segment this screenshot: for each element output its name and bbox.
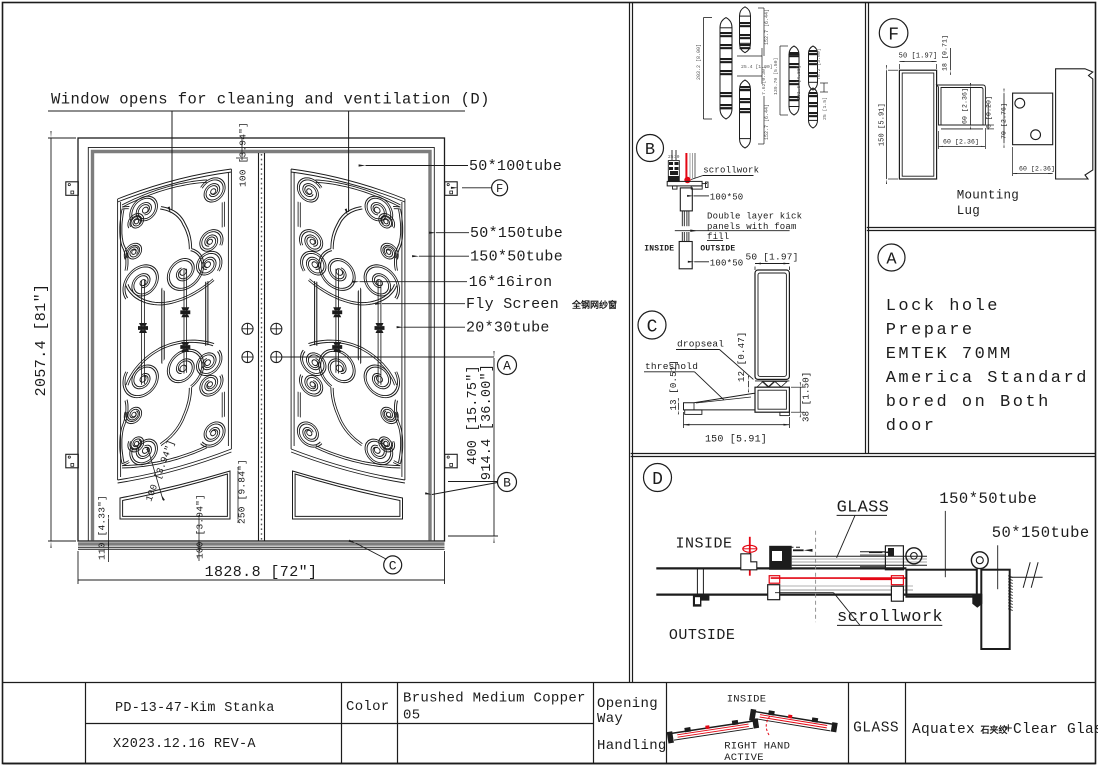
svg-text:Prepare: Prepare [886,321,975,340]
svg-text:Color: Color [346,699,390,715]
callout C bottom [384,556,402,574]
hinge hardware drawings [720,28,732,109]
svg-text:152.7 [6.44]: 152.7 [6.44] [764,104,770,140]
svg-text:Aquatex: Aquatex [912,722,975,738]
callout F bracket [462,187,491,189]
region divider vertical BC/FA [865,3,867,453]
svg-text:INSIDE: INSIDE [644,244,674,253]
svg-text:18 [0.71]: 18 [0.71] [942,35,949,71]
left leaf panel borders [118,169,232,199]
region divider horizontal D top [631,453,1096,455]
dim 2057.4 left [50,138,52,541]
detail C section [638,311,666,339]
svg-text:60 [2.36]: 60 [2.36] [1019,166,1055,173]
svg-text:OUTSIDE: OUTSIDE [700,244,735,253]
dim 1828.8 bottom [78,579,445,581]
svg-text:150 [5.91]: 150 [5.91] [879,103,887,146]
svg-text:Double layer kick: Double layer kick [707,212,802,222]
bar collars right leaf [376,323,384,326]
svg-text:100 [3.94"]: 100 [3.94"] [195,494,206,559]
svg-text:Mounting: Mounting [957,189,1019,203]
svg-text:203.2 [8.00]: 203.2 [8.00] [696,44,702,80]
svg-text:America Standard: America Standard [886,369,1089,388]
svg-text:76.2 [3.00]: 76.2 [3.00] [816,48,822,80]
svg-text:GLASS: GLASS [853,721,899,737]
svg-text:100*50: 100*50 [710,258,744,268]
top note underline [48,110,465,112]
title block [3,682,1096,684]
bar collars left leaf [139,323,147,326]
svg-text:150*50tube: 150*50tube [470,249,563,266]
svg-text:bored on Both: bored on Both [886,393,1051,412]
svg-text:400 [15.75"]: 400 [15.75"] [466,365,481,465]
svg-text:Opening: Opening [597,696,658,712]
leader to right panel [348,111,350,212]
svg-text:Way: Way [597,711,623,727]
svg-text:Lock hole: Lock hole [886,297,1000,316]
detail B section [637,135,664,162]
svg-text:16*16iron: 16*16iron [469,274,553,291]
svg-text:+Clear Glass: +Clear Glass [1004,722,1098,738]
svg-text:50*150tube: 50*150tube [470,225,563,242]
svg-text:100*50: 100*50 [710,193,744,203]
svg-text:5 [0.20]: 5 [0.20] [986,96,993,128]
svg-text:F: F [496,182,503,196]
svg-text:ACTIVE: ACTIVE [724,752,764,764]
svg-text:13 [0.51]: 13 [0.51] [669,360,679,410]
svg-text:door: door [886,417,937,436]
svg-text:INSIDE: INSIDE [676,536,733,553]
left leaf scrollwork [120,171,228,475]
svg-text:B: B [503,476,511,491]
svg-text:100 [3.94"]: 100 [3.94"] [238,122,249,187]
svg-text:101.6 [4.00]: 101.6 [4.00] [796,65,802,100]
svg-text:Brushed Medium Copper: Brushed Medium Copper [403,691,586,707]
svg-text:30: 30 [674,154,680,160]
hinge bracket bottom-right [445,454,458,468]
svg-text:2057.4 [81"]: 2057.4 [81"] [33,284,50,397]
svg-text:A: A [886,250,897,269]
svg-text:25: 25 [668,154,674,160]
svg-text:Window opens for cleaning and: Window opens for cleaning and ventilatio… [51,91,490,109]
svg-text:50 [1.97]: 50 [1.97] [745,252,798,263]
svg-text:50 [1.97]: 50 [1.97] [899,53,938,61]
right leaf scrollwork [294,171,402,475]
dim 400/914 right [493,358,495,536]
svg-text:50*100tube: 50*100tube [469,158,562,175]
svg-text:B: B [645,141,655,160]
door frame thick band [91,150,432,541]
svg-text:150 [5.91]: 150 [5.91] [705,434,767,446]
door inner frame line [88,148,434,542]
svg-text:F: F [888,25,899,45]
svg-text:25 [1.5]: 25 [1.5] [822,97,828,120]
svg-text:139.70 [5.50]: 139.70 [5.50] [773,58,779,95]
svg-text:scrollwork: scrollwork [703,166,759,176]
svg-text:1828.8 [72"]: 1828.8 [72"] [205,564,318,581]
detail A lock note [878,244,905,271]
svg-text:scrollwork: scrollwork [837,608,943,627]
region divider vertical door/details [629,3,631,682]
svg-text:Fly Screen: Fly Screen [466,296,559,313]
astragal dotted line [261,154,263,540]
svg-text:110 [4.33"]: 110 [4.33"] [97,495,108,560]
svg-text:60 [2.36]: 60 [2.36] [962,88,969,124]
svg-text:Handling: Handling [597,738,667,754]
section D drawing [644,464,672,492]
svg-text:INSIDE: INSIDE [727,694,767,706]
detail F mounting lug [879,19,908,48]
callout A right [498,356,517,375]
svg-text:PD-13-47-Kim Stanka: PD-13-47-Kim Stanka [115,701,275,716]
hinge bracket top-left [66,182,79,196]
svg-text:OUTSIDE: OUTSIDE [669,627,736,644]
hinge bracket bottom-left [66,454,79,468]
hinge bracket top-right [445,182,458,196]
svg-text:C: C [647,317,658,337]
svg-text:A: A [503,359,511,374]
svg-text:60 [2.36]: 60 [2.36] [943,138,979,145]
svg-text:12 [0.47]: 12 [0.47] [737,332,747,382]
svg-text:7.62[0.30]: 7.62[0.30] [761,66,767,95]
svg-text:GLASS: GLASS [837,498,890,517]
svg-text:Lug: Lug [957,204,980,218]
callout B right [498,473,517,492]
svg-text:EMTEK 70MM: EMTEK 70MM [886,345,1013,364]
right leaf panel borders [291,169,405,519]
svg-text:20*30tube: 20*30tube [466,320,550,337]
svg-text:25.4 [1.00]: 25.4 [1.00] [741,64,773,70]
svg-text:05: 05 [403,708,420,724]
lock bolt symbols [242,323,253,334]
svg-text:38 [1.50]: 38 [1.50] [802,372,812,422]
svg-text:152.7 [6.44]: 152.7 [6.44] [764,9,770,45]
door outer frame [78,138,445,541]
svg-text:dropseal: dropseal [677,339,724,350]
svg-text:X2023.12.16 REV-A: X2023.12.16 REV-A [113,737,256,752]
svg-text:D: D [652,470,663,490]
svg-text:150*50tube: 150*50tube [939,490,1037,508]
svg-text:50*150tube: 50*150tube [992,524,1090,542]
door sill [78,540,445,542]
svg-text:RIGHT HAND: RIGHT HAND [724,741,790,753]
svg-text:914.4 [36.00"]: 914.4 [36.00"] [480,364,495,480]
leader to left panel [171,111,173,210]
region divider horizontal F/A [867,227,1096,229]
svg-text:全钢网纱窗: 全钢网纱窗 [571,299,617,310]
center mullion [258,153,260,541]
svg-text:C: C [389,558,397,573]
